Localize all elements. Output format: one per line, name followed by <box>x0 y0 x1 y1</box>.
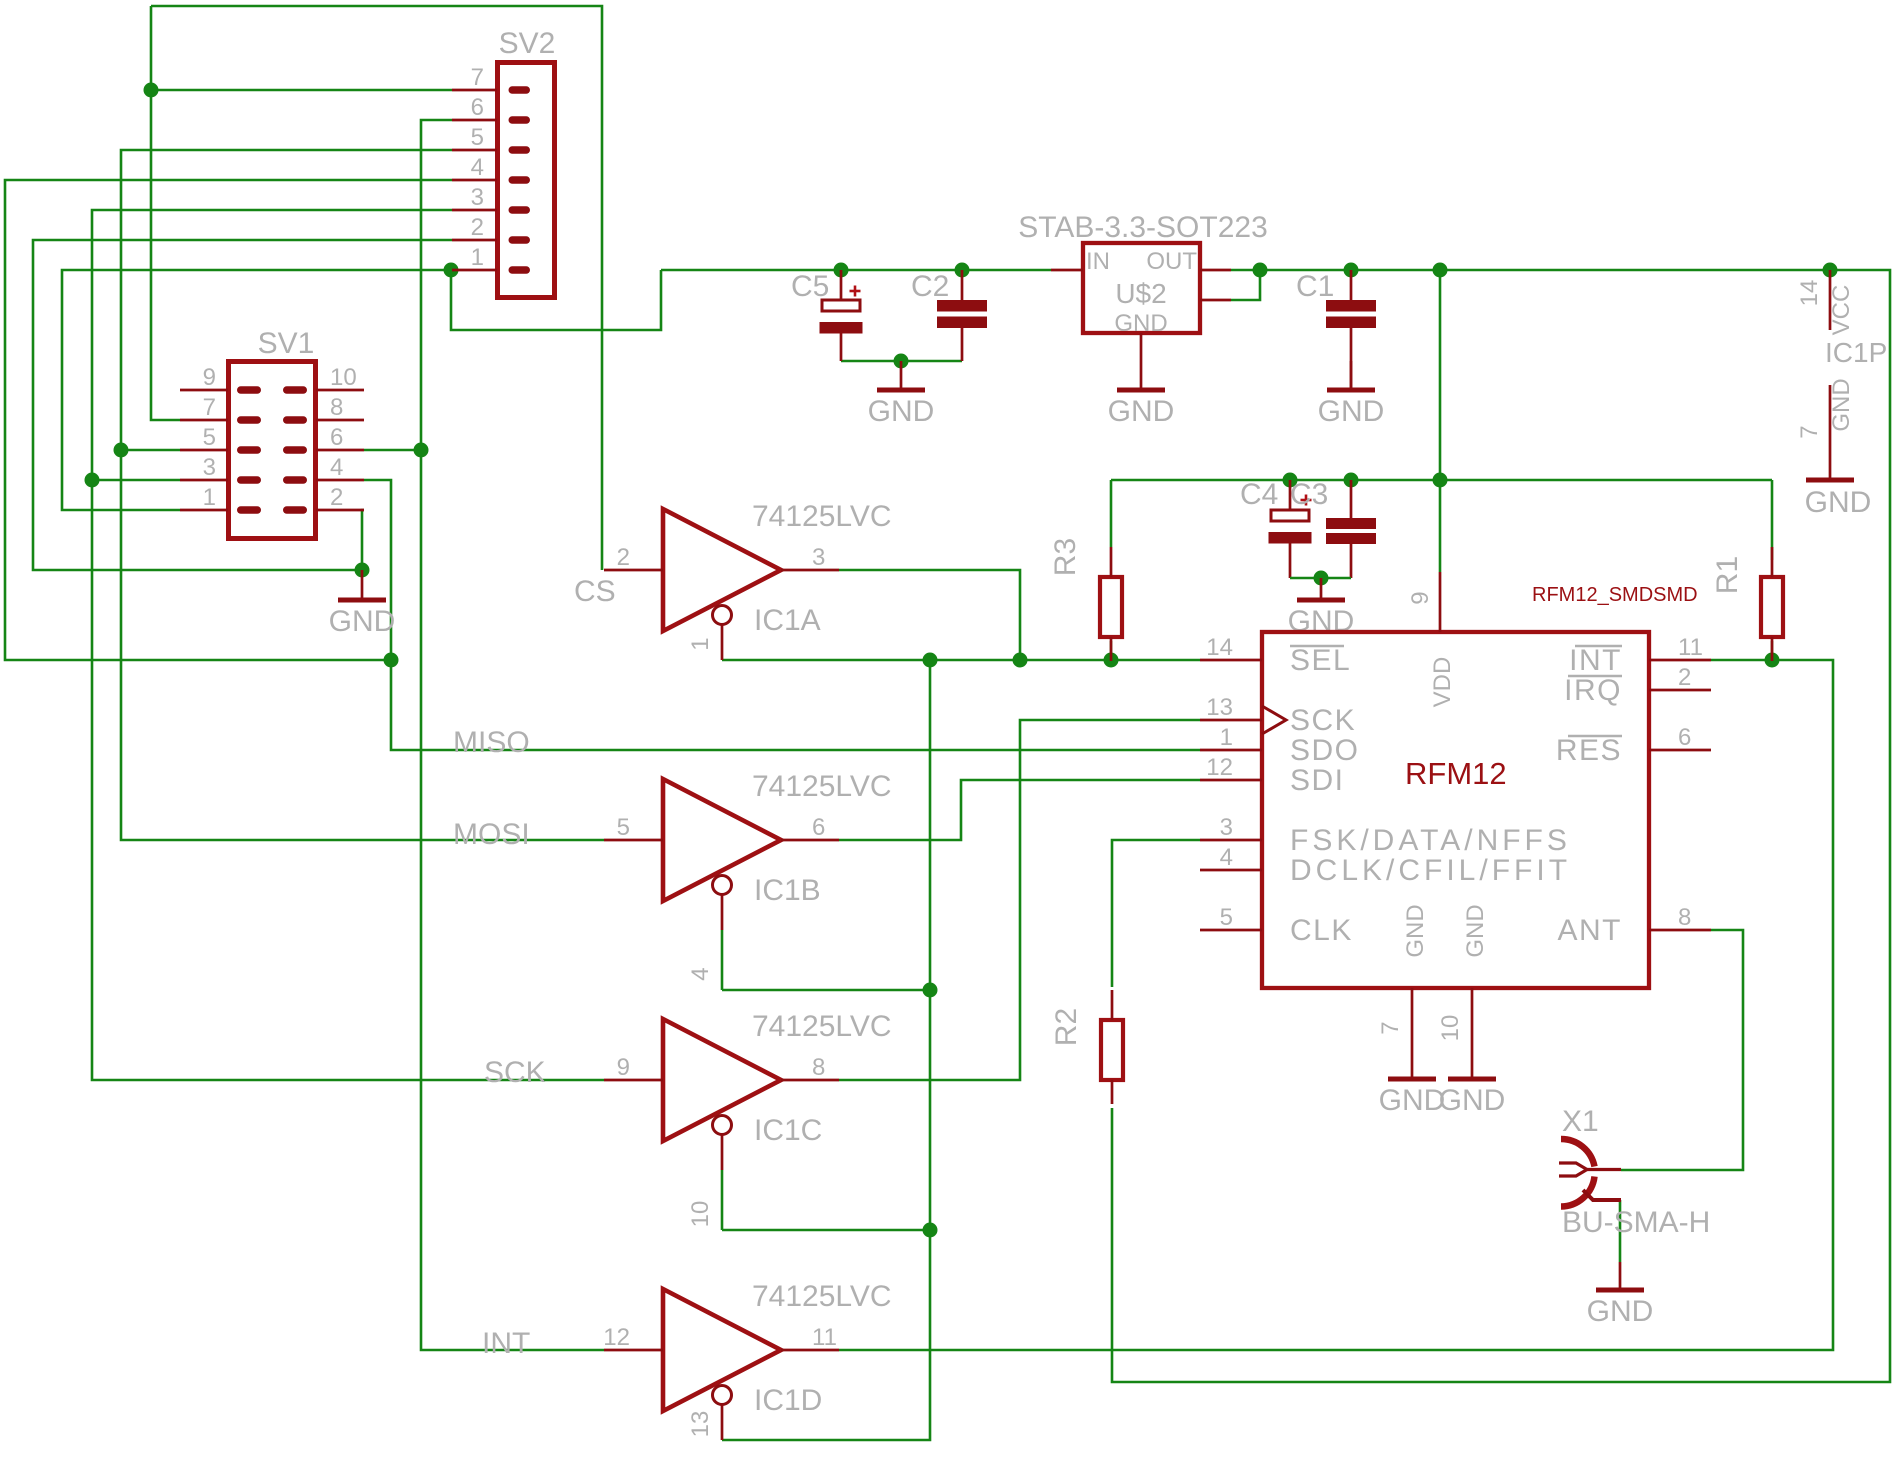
svg-text:MOSI: MOSI <box>453 818 530 851</box>
wire IC1C enable <box>722 1229 930 1232</box>
RFM12 VDD pin 9 <box>1439 572 1442 632</box>
power symbol IC1P VCC pin 14 <box>1829 270 1832 330</box>
node VCC at VDD riser <box>1433 263 1448 278</box>
wire net GND (SV2.2 to GND under SV1) <box>33 240 452 570</box>
svg-text:C4: C4 <box>1240 478 1278 511</box>
svg-text:OUT: OUT <box>1146 248 1197 275</box>
node VCC at C1 <box>1344 263 1359 278</box>
wire IC1B enable <box>722 989 930 992</box>
node VCC at C5 <box>834 263 849 278</box>
wire R1 top <box>1771 480 1774 560</box>
wire R3 bottom <box>1110 641 1113 660</box>
svg-text:4: 4 <box>1220 844 1233 871</box>
wire VCC rail right / right edge / bottom to R2 <box>1112 270 1890 1382</box>
op-amp buffer IC1C (74125) <box>604 1010 892 1227</box>
svg-text:13: 13 <box>687 1411 714 1438</box>
wire net MOSI (SV2.5/SV1.5 to IC1B input) <box>121 150 604 840</box>
wire SV1 pin5 branch <box>121 449 180 452</box>
wire VCC rail left <box>661 269 1051 272</box>
wire ANT to X1 <box>1621 930 1743 1170</box>
node GND C4/C3 <box>1314 571 1329 586</box>
svg-text:6: 6 <box>471 94 484 121</box>
node SV1.6 <box>414 443 429 458</box>
svg-text:R1: R1 <box>1711 556 1744 594</box>
svg-text:GND: GND <box>1402 904 1429 957</box>
svg-text:8: 8 <box>812 1054 825 1081</box>
node VCC at SV2.1 <box>444 263 459 278</box>
wire U$2 OUT lower pin <box>1231 270 1260 300</box>
svg-text:4: 4 <box>687 967 714 980</box>
ground X1 <box>1587 1262 1654 1328</box>
svg-text:SV2: SV2 <box>499 27 556 60</box>
wire net SCK (SV2.3/SV1.3 to IC1C input) <box>92 210 604 1080</box>
svg-text:GND: GND <box>1805 486 1872 519</box>
svg-text:7: 7 <box>471 64 484 91</box>
svg-text:3: 3 <box>1220 814 1233 841</box>
RFM12 pin names right <box>1556 644 1622 947</box>
svg-text:74125LVC: 74125LVC <box>752 770 892 803</box>
RFM12 GND pin 10 <box>1471 988 1474 1079</box>
power symbol IC1P GND pin 7 <box>1829 385 1832 480</box>
svg-text:1: 1 <box>1220 724 1233 751</box>
ground RFM12 pin7 <box>1379 1079 1446 1117</box>
wire X1 shell to GND <box>1619 1200 1622 1262</box>
op-amp buffer IC1A (74125) <box>604 500 892 660</box>
IC RFM12 box <box>1262 632 1649 988</box>
RFM12 left pin 12 <box>1200 779 1262 782</box>
svg-text:GND: GND <box>329 605 396 638</box>
svg-text:3: 3 <box>203 454 216 481</box>
wire IC1A output to SEL <box>839 570 1020 660</box>
connector SV2 <box>452 27 555 298</box>
wire IC1D output to INT pin 11 <box>839 660 1833 1350</box>
RFM12 clock symbol on SCK pin <box>1262 706 1286 734</box>
svg-text:12: 12 <box>1206 754 1233 781</box>
svg-text:VCC: VCC <box>1828 285 1855 336</box>
svg-text:5: 5 <box>617 814 630 841</box>
RFM12 left pin 13 <box>1200 719 1262 722</box>
svg-text:X1: X1 <box>1562 1105 1599 1138</box>
svg-text:R2: R2 <box>1050 1008 1083 1046</box>
node SEL at IC1A out <box>1013 653 1028 668</box>
ground RFM12 pin10 <box>1439 1079 1506 1117</box>
svg-text:74125LVC: 74125LVC <box>752 1280 892 1313</box>
svg-text:SCK: SCK <box>484 1056 546 1089</box>
svg-text:INT: INT <box>482 1327 530 1360</box>
node SEL at R3 <box>1104 653 1119 668</box>
wire SV1 pin2 branch to GND <box>362 510 364 570</box>
ground IC1P <box>1805 480 1872 519</box>
RFM12 left pin 3 <box>1200 839 1262 842</box>
svg-text:6: 6 <box>1678 724 1691 751</box>
svg-text:VDD: VDD <box>1429 657 1456 708</box>
svg-text:GND: GND <box>868 395 935 428</box>
wire VCC jog under SV2 <box>451 270 661 330</box>
connector X1 BU-SMA-H <box>1559 1105 1710 1239</box>
capacitor C4 <box>1240 478 1312 578</box>
node VCC at IC1P <box>1823 263 1838 278</box>
node SV1.5 <box>114 443 129 458</box>
svg-text:7: 7 <box>1796 425 1823 438</box>
svg-text:SV1: SV1 <box>258 327 315 360</box>
RFM12 left pin 14 <box>1200 659 1262 662</box>
node SEL/enable <box>923 653 938 668</box>
resistor R2 <box>1050 990 1123 1104</box>
svg-text:11: 11 <box>812 1324 837 1351</box>
svg-text:5: 5 <box>471 124 484 151</box>
svg-text:C1: C1 <box>1296 270 1334 303</box>
wire SV1 pin4 branch / MISO to RFM12 SDO <box>364 480 1200 750</box>
wire R1 bottom <box>1771 641 1774 660</box>
svg-text:C3: C3 <box>1290 478 1328 511</box>
node INT at R1 <box>1765 653 1780 668</box>
svg-text:IC1B: IC1B <box>754 874 821 907</box>
RFM12 GND pin 7 <box>1411 988 1414 1079</box>
node VCC at U$2 OUT <box>1253 263 1268 278</box>
svg-text:8: 8 <box>330 394 343 421</box>
svg-text:3: 3 <box>812 544 825 571</box>
svg-text:6: 6 <box>812 814 825 841</box>
svg-text:14: 14 <box>1796 280 1823 307</box>
RFM12 left pin 1 <box>1200 749 1262 752</box>
wire net MISO (SV2.4 segment) <box>5 180 452 660</box>
svg-text:STAB-3.3-SOT223: STAB-3.3-SOT223 <box>1018 211 1268 244</box>
svg-text:GND: GND <box>1828 378 1855 431</box>
svg-text:2: 2 <box>1678 664 1691 691</box>
RFM12 left pin 5 <box>1200 929 1262 932</box>
resistor R3 <box>1049 538 1122 661</box>
svg-text:IC1D: IC1D <box>754 1384 822 1417</box>
svg-text:BU-SMA-H: BU-SMA-H <box>1562 1206 1710 1239</box>
svg-text:14: 14 <box>1206 634 1233 661</box>
ground SV1 <box>329 570 396 638</box>
svg-text:2: 2 <box>471 214 484 241</box>
connector SV1 <box>180 327 364 539</box>
svg-text:RFM12_SMDSMD: RFM12_SMDSMD <box>1532 584 1698 606</box>
capacitor C5 <box>791 270 863 361</box>
svg-text:GND: GND <box>1318 395 1385 428</box>
RFM12 left pin 4 <box>1200 869 1262 872</box>
svg-text:2: 2 <box>330 484 343 511</box>
svg-text:ANT: ANT <box>1558 914 1623 947</box>
svg-text:9: 9 <box>1407 591 1434 604</box>
svg-text:C2: C2 <box>911 270 949 303</box>
capacitor C3 <box>1290 478 1376 578</box>
svg-text:7: 7 <box>203 394 216 421</box>
wire IC1C enable pin lower <box>721 1170 724 1230</box>
node SV1.3 <box>85 473 100 488</box>
wire R2 to FSK pin 3 <box>1112 840 1200 987</box>
svg-text:6: 6 <box>330 424 343 451</box>
voltage regulator U$2 STAB-3.3-SOT223 <box>1018 211 1268 390</box>
RFM12 pin names left <box>1290 644 1571 947</box>
ground C4/C3 <box>1288 578 1355 638</box>
op-amp buffer IC1D (74125) <box>603 1280 891 1440</box>
svg-text:74125LVC: 74125LVC <box>752 1010 892 1043</box>
ground U$2 <box>1108 390 1175 428</box>
RFM12 right pin 6 <box>1649 749 1711 752</box>
svg-text:MISO: MISO <box>453 726 530 759</box>
svg-text:SDI: SDI <box>1290 764 1345 797</box>
wire net CS top <box>151 6 602 570</box>
svg-text:10: 10 <box>687 1201 714 1228</box>
node SV2.7/CS junction <box>144 83 159 98</box>
svg-text:9: 9 <box>203 364 216 391</box>
wire IC1B enable pin lower <box>721 930 724 990</box>
node MISO corner <box>384 653 399 668</box>
svg-text:SEL: SEL <box>1290 644 1351 677</box>
svg-text:RFM12: RFM12 <box>1405 756 1507 791</box>
wire net INT vertical (SV2.6/SV1.6 to IC1D input) <box>421 120 604 1350</box>
wire SV1 pin3 branch <box>92 479 180 482</box>
node enable IC1C <box>923 1223 938 1238</box>
RFM12 right pin 2 <box>1649 689 1711 692</box>
svg-text:INT: INT <box>1569 644 1622 677</box>
svg-text:RES: RES <box>1556 734 1622 767</box>
resistor R1 <box>1711 547 1783 661</box>
svg-text:IC1A: IC1A <box>754 604 821 637</box>
svg-text:10: 10 <box>330 364 357 391</box>
capacitor C2 <box>911 270 987 361</box>
RFM12 right pin 11 <box>1649 659 1711 662</box>
svg-text:1: 1 <box>203 484 216 511</box>
svg-text:CS: CS <box>574 575 616 608</box>
svg-text:GND: GND <box>1587 1295 1654 1328</box>
svg-text:R3: R3 <box>1049 538 1082 576</box>
wire IC1B output to SDI <box>839 780 1200 840</box>
node VCC at C2 <box>955 263 970 278</box>
svg-text:GND: GND <box>1462 904 1489 957</box>
node GND under SV1 <box>355 563 370 578</box>
wire enable bus vertical <box>722 660 930 1440</box>
svg-text:GND: GND <box>1439 1084 1506 1117</box>
svg-text:8: 8 <box>1678 904 1691 931</box>
svg-text:DCLK/CFIL/FFIT: DCLK/CFIL/FFIT <box>1290 854 1571 887</box>
node GND C5/C2 <box>894 354 909 369</box>
wire +3V3 rail (C4/C3) <box>1111 479 1772 482</box>
svg-text:5: 5 <box>1220 904 1233 931</box>
svg-text:CLK: CLK <box>1290 914 1353 947</box>
wire R3 top <box>1110 480 1113 547</box>
svg-text:GND: GND <box>1379 1084 1446 1117</box>
svg-text:GND: GND <box>1114 310 1167 337</box>
svg-text:GND: GND <box>1108 395 1175 428</box>
svg-text:4: 4 <box>330 454 343 481</box>
svg-text:SCK: SCK <box>1290 704 1356 737</box>
capacitor C1 <box>1296 270 1376 390</box>
svg-text:11: 11 <box>1678 634 1703 661</box>
wire net VCC from SV2.1 to SV1.1 <box>62 270 452 510</box>
op-amp buffer IC1B (74125) <box>604 770 892 981</box>
svg-text:13: 13 <box>1206 694 1233 721</box>
svg-text:FSK/DATA/NFFS: FSK/DATA/NFFS <box>1290 824 1571 857</box>
svg-text:5: 5 <box>203 424 216 451</box>
wire VDD riser <box>1439 270 1442 572</box>
node +3V3 at C4 <box>1283 473 1298 488</box>
wire SV1 pin6 branch <box>364 449 421 452</box>
node +3V3 at VDD <box>1433 473 1448 488</box>
wire SV2 pin7 to SV1 pin7 <box>151 89 452 92</box>
svg-text:U$2: U$2 <box>1115 278 1166 309</box>
RFM12 right pin 8 <box>1649 929 1711 932</box>
svg-text:SDO: SDO <box>1290 734 1360 767</box>
svg-text:4: 4 <box>471 154 484 181</box>
svg-text:3: 3 <box>471 184 484 211</box>
svg-text:1: 1 <box>471 244 484 271</box>
svg-text:IC1C: IC1C <box>754 1114 822 1147</box>
node +3V3 at C3 <box>1344 473 1359 488</box>
svg-text:12: 12 <box>603 1324 630 1351</box>
node enable IC1B <box>923 983 938 998</box>
svg-text:7: 7 <box>1377 1021 1404 1034</box>
svg-text:1: 1 <box>687 637 714 650</box>
svg-text:10: 10 <box>1437 1015 1464 1042</box>
svg-text:9: 9 <box>617 1054 630 1081</box>
svg-text:C5: C5 <box>791 270 829 303</box>
wire SEL line <box>722 659 1200 662</box>
ground C1 <box>1318 361 1385 428</box>
svg-text:2: 2 <box>617 544 630 571</box>
ground C5/C2 <box>868 361 935 428</box>
wire C5-C2 ground link <box>841 360 962 363</box>
wire IC1C output to SCK pin <box>839 720 1200 1080</box>
svg-text:IN: IN <box>1086 248 1110 275</box>
wire C4-C3 ground link <box>1290 577 1351 580</box>
svg-text:IC1P: IC1P <box>1825 337 1887 368</box>
svg-text:74125LVC: 74125LVC <box>752 500 892 533</box>
svg-text:IRQ: IRQ <box>1564 674 1622 707</box>
